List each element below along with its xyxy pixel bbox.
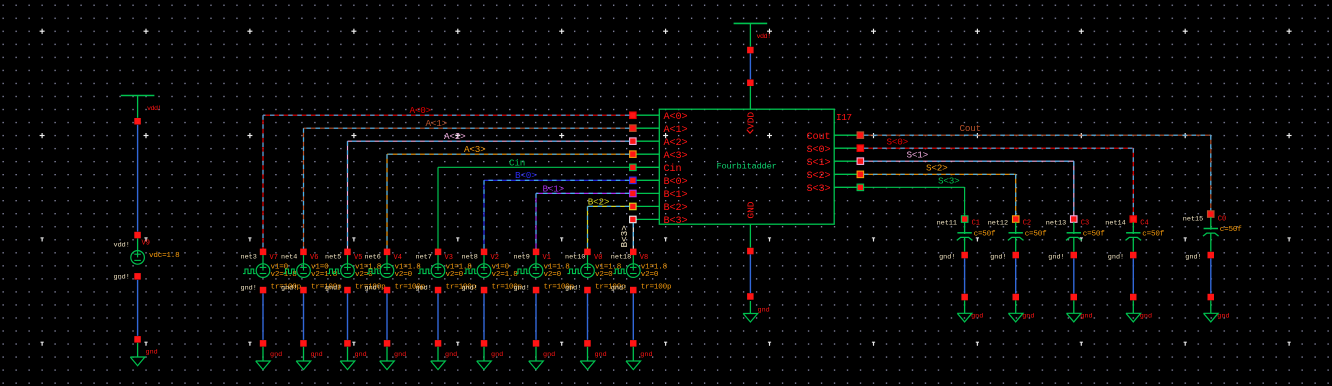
svg-text:V1: V1	[543, 254, 551, 262]
svg-text:gnd: gnd	[1022, 313, 1034, 321]
svg-text:net8: net8	[462, 254, 478, 262]
svg-text:B<3>: B<3>	[619, 225, 630, 248]
svg-text:S<2>: S<2>	[806, 171, 830, 182]
svg-text:net14: net14	[1105, 219, 1125, 227]
svg-text:net7: net7	[416, 254, 432, 262]
svg-text:gnd!: gnd!	[611, 284, 627, 292]
svg-text:B<1>: B<1>	[543, 183, 565, 194]
svg-text:VDD: VDD	[745, 112, 756, 129]
svg-text:A<1>: A<1>	[426, 118, 448, 129]
svg-text:tr=100p: tr=100p	[641, 284, 672, 292]
svg-text:v2=1.8: v2=1.8	[311, 271, 338, 279]
svg-text:A<0>: A<0>	[664, 112, 688, 123]
svg-text:Cin: Cin	[664, 163, 682, 175]
svg-text:B<0>: B<0>	[515, 170, 537, 181]
svg-text:gnd!: gnd!	[325, 284, 341, 292]
svg-text:A<2>: A<2>	[444, 131, 466, 142]
svg-text:C0: C0	[1218, 216, 1226, 224]
svg-text:gnd: gnd	[543, 351, 555, 359]
svg-text:C2: C2	[1023, 220, 1031, 228]
svg-text:vdc=1.8: vdc=1.8	[149, 252, 180, 260]
svg-text:C1: C1	[972, 220, 980, 228]
svg-text:gnd!: gnd!	[365, 284, 381, 292]
svg-text:gnd: gnd	[394, 351, 406, 359]
svg-text:gnd: gnd	[595, 351, 607, 359]
svg-text:gnd: gnd	[758, 307, 770, 315]
svg-text:net6: net6	[365, 254, 381, 262]
svg-text:net9: net9	[514, 254, 530, 262]
svg-text:v2=1.8: v2=1.8	[271, 271, 298, 279]
svg-text:V0: V0	[594, 254, 602, 262]
svg-text:v2=1.8: v2=1.8	[492, 271, 519, 279]
svg-text:v2=0: v2=0	[544, 271, 562, 279]
svg-text:gnd!: gnd!	[416, 284, 432, 292]
svg-text:V2: V2	[491, 254, 499, 262]
svg-text:gnd!: gnd!	[114, 273, 130, 281]
svg-text:net10: net10	[565, 254, 585, 262]
svg-text:A<3>: A<3>	[664, 151, 688, 162]
svg-text:S<3>: S<3>	[938, 175, 960, 186]
svg-text:v2=0: v2=0	[595, 271, 613, 279]
svg-text:A<3>: A<3>	[464, 144, 486, 155]
svg-text:vdd!: vdd!	[757, 33, 771, 41]
svg-text:B<1>: B<1>	[664, 190, 688, 201]
svg-text:gnd!: gnd!	[939, 253, 955, 261]
svg-text:V9: V9	[142, 239, 150, 247]
svg-text:net15: net15	[1183, 215, 1203, 223]
svg-text:S<0>: S<0>	[887, 136, 909, 147]
svg-text:net4: net4	[281, 254, 297, 262]
svg-text:c=50f: c=50f	[974, 231, 996, 239]
svg-text:B<3>: B<3>	[664, 216, 688, 227]
svg-text:B<2>: B<2>	[664, 203, 688, 214]
svg-text:gnd: gnd	[270, 351, 282, 359]
svg-text:gnd!: gnd!	[281, 284, 297, 292]
svg-text:GND: GND	[745, 201, 756, 218]
svg-text:net3: net3	[241, 254, 257, 262]
svg-text:v2=0: v2=0	[355, 271, 373, 279]
svg-text:V6: V6	[310, 254, 318, 262]
svg-text:net11: net11	[937, 219, 957, 227]
svg-text:net12: net12	[988, 219, 1008, 227]
svg-text:gnd!: gnd!	[1108, 253, 1124, 261]
svg-text:gnd: gnd	[491, 351, 503, 359]
svg-text:S<2>: S<2>	[926, 162, 948, 173]
svg-text:gnd: gnd	[1080, 313, 1092, 321]
svg-text:v2=0: v2=0	[641, 271, 659, 279]
svg-text:Cin: Cin	[509, 157, 525, 168]
svg-text:gnd!: gnd!	[1185, 253, 1201, 261]
svg-text:c=50f: c=50f	[1220, 226, 1242, 234]
svg-text:gnd: gnd	[355, 351, 367, 359]
svg-text:c=50f: c=50f	[1142, 231, 1164, 239]
svg-text:gnd: gnd	[971, 313, 983, 321]
svg-text:V4: V4	[394, 254, 402, 262]
svg-text:v2=0: v2=0	[446, 271, 464, 279]
svg-text:C4: C4	[1140, 220, 1148, 228]
svg-text:V7: V7	[270, 254, 278, 262]
svg-text:B<0>: B<0>	[664, 177, 688, 188]
svg-text:c=50f: c=50f	[1025, 231, 1047, 239]
svg-text:vdd!: vdd!	[147, 105, 161, 113]
svg-text:S<3>: S<3>	[806, 184, 830, 195]
svg-text:gnd: gnd	[146, 349, 158, 357]
svg-text:I17: I17	[836, 112, 852, 123]
svg-text:c=50f: c=50f	[1083, 231, 1105, 239]
svg-text:gnd!: gnd!	[1048, 253, 1064, 261]
svg-text:gnd: gnd	[640, 351, 652, 359]
svg-text:V3: V3	[445, 254, 453, 262]
svg-text:Cout: Cout	[960, 123, 982, 134]
svg-text:net18: net18	[611, 254, 631, 262]
svg-text:S<0>: S<0>	[806, 145, 830, 156]
svg-text:C3: C3	[1081, 220, 1089, 228]
svg-text:Fourbitadder: Fourbitadder	[717, 161, 777, 171]
svg-text:gnd!: gnd!	[565, 284, 581, 292]
svg-text:gnd: gnd	[445, 351, 457, 359]
svg-text:gnd!: gnd!	[514, 284, 530, 292]
svg-text:v2=0: v2=0	[395, 271, 413, 279]
svg-text:gnd: gnd	[311, 351, 323, 359]
svg-text:net13: net13	[1046, 219, 1066, 227]
svg-text:gnd!: gnd!	[241, 284, 257, 292]
svg-text:net5: net5	[325, 254, 341, 262]
svg-text:A<1>: A<1>	[664, 125, 688, 136]
svg-text:vdd!: vdd!	[114, 241, 130, 249]
svg-text:A<0>: A<0>	[410, 105, 432, 116]
svg-text:S<1>: S<1>	[907, 149, 929, 160]
svg-text:gnd: gnd	[1140, 313, 1152, 321]
svg-text:gnd: gnd	[1217, 313, 1229, 321]
svg-text:Cout: Cout	[806, 132, 830, 143]
svg-text:S<1>: S<1>	[806, 158, 830, 169]
svg-text:A<2>: A<2>	[664, 138, 688, 149]
svg-text:V5: V5	[354, 254, 362, 262]
svg-text:V8: V8	[640, 254, 648, 262]
svg-text:gnd!: gnd!	[990, 253, 1006, 261]
svg-text:gnd!: gnd!	[462, 284, 478, 292]
svg-text:B<2>: B<2>	[588, 196, 610, 207]
